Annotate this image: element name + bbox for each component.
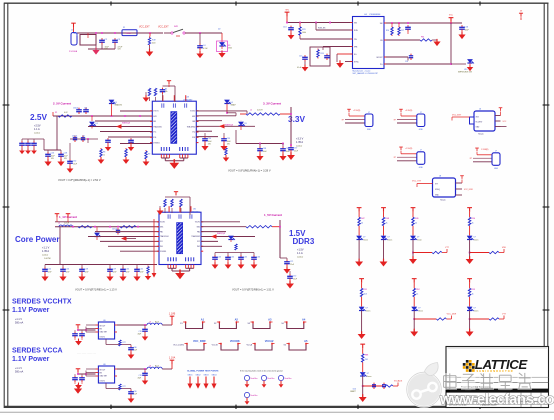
svg-text:C13: C13 [283,27,286,29]
svg-text:D?: D? [363,237,365,239]
svg-text:GND SET: GND SET [100,332,108,334]
svg-text:Green: Green [366,309,371,312]
svg-text:10uF: 10uF [134,394,138,396]
svg-text:C39: C39 [227,138,230,140]
svg-text:22uF: 22uF [66,271,70,273]
svg-text:VOSNS1: VOSNS1 [160,251,166,253]
svg-text:R52: R52 [416,289,419,291]
svg-text:GLOBAL POWER TEST POINTS: GLOBAL POWER TEST POINTS [187,370,219,373]
svg-text:D?: D? [388,237,390,239]
svg-text:22uF: 22uF [48,271,52,273]
svg-text:Green: Green [474,309,479,312]
svg-text:TestVia: TestVia [267,377,275,380]
svg-text:C72: C72 [293,276,296,278]
svg-text:A2: A2 [235,318,239,322]
svg-text:R1: R1 [55,112,57,114]
svg-text:VCCA2: VCCA2 [265,339,274,343]
svg-text:VCC_VTT: VCC_VTT [412,181,422,183]
svg-text:FB1: FB1 [421,37,424,39]
svg-text:Bead: Bead [155,365,159,367]
svg-text:1.35 A: 1.35 A [42,250,49,253]
svg-text:10uF: 10uF [134,350,138,352]
svg-text:GND: GND [494,168,499,170]
svg-text:VOUT2: VOUT2 [195,222,200,224]
svg-text:22uF: 22uF [126,271,130,273]
svg-text:1k: 1k [416,294,418,296]
svg-text:2.5V: 2.5V [30,112,48,122]
svg-text:47pF: 47pF [138,334,142,336]
svg-text:2k: 2k [472,223,474,225]
svg-text:SW2: SW2 [197,226,200,228]
svg-text:C56: C56 [66,269,69,271]
svg-text:VIN: VIN [285,10,289,12]
svg-text:3V3: 3V3 [476,117,479,119]
svg-text:C37: C37 [294,148,297,150]
svg-text:SW1: SW1 [153,116,156,118]
svg-text:R51: R51 [364,289,367,291]
svg-text:VCC_DDR: VCC_DDR [193,339,206,343]
svg-text:VOUT1: VOUT1 [160,222,165,224]
svg-text:+1.5V(R): +1.5V(R) [405,148,413,150]
svg-text:D10: D10 [353,389,356,391]
svg-text:500 mA: 500 mA [15,321,24,324]
svg-text:PG1: PG1 [160,246,163,248]
svg-text:R88: R88 [365,355,368,357]
svg-text:VC1: VC1 [153,132,156,134]
svg-text:VOUT2: VOUT2 [190,111,195,113]
svg-text:2k: 2k [415,223,417,225]
svg-text:C32: C32 [73,161,76,163]
svg-text:If the mounting holes needs to: If the mounting holes needs to be connec… [240,370,282,373]
svg-text:GND SET: GND SET [100,376,108,378]
svg-text:SYNC: SYNC [354,62,359,64]
svg-text:FB2: FB2 [192,121,195,123]
svg-text:C62: C62 [140,269,143,271]
svg-text:R8: R8 [103,152,105,154]
svg-text:1.35 A: 1.35 A [296,141,303,144]
svg-text:C71: C71 [290,261,293,263]
svg-text:C54: C54 [48,269,51,271]
svg-text:C14: C14 [405,61,408,63]
svg-text:C36: C36 [84,108,87,110]
svg-text:Bead: Bead [155,321,159,323]
svg-text:1.1VB(R): 1.1VB(R) [481,149,489,151]
svg-text:D?: D? [418,308,420,310]
svg-text:D3: D3 [115,102,117,104]
svg-text:DDR3: DDR3 [293,237,315,246]
svg-text:R53: R53 [472,289,475,291]
svg-text:VDDQ: VDDQ [435,189,441,191]
svg-text:U10: U10 [464,69,467,71]
svg-text:J?: J? [420,112,422,114]
svg-text:VC2: VC2 [192,132,195,134]
svg-text:0.1uF: 0.1uF [297,67,301,69]
svg-text:100k: 100k [302,32,306,34]
svg-text:VCC_DDR1: VCC_DDR1 [173,344,185,346]
svg-text:LT3080EMS8E: LT3080EMS8E [369,14,381,16]
svg-text:22uF: 22uF [294,150,298,152]
svg-text:VOUT1: VOUT1 [153,111,158,113]
svg-text:A4: A4 [302,318,306,322]
svg-text:C30(1): C30(1) [73,108,79,110]
svg-text:1k: 1k [103,154,105,156]
svg-text:FB1: FB1 [153,121,156,123]
svg-text:2_5V Current: 2_5V Current [53,102,71,106]
svg-text:A3: A3 [268,318,272,322]
svg-text:L2: L2 [250,110,252,112]
svg-text:J?: J? [420,150,422,152]
svg-text:C28: C28 [64,153,67,155]
svg-text:VCCAUX: VCCAUX [394,380,403,383]
svg-text:A5: A5 [304,339,308,343]
svg-text:500 mA: 500 mA [15,370,24,373]
svg-text:C41: C41 [82,136,85,138]
svg-text:C15: C15 [299,56,302,58]
svg-text:VCC_DDR: VCC_DDR [464,189,473,191]
svg-text:47pF: 47pF [138,378,142,380]
svg-text:Lattice: Lattice [34,132,41,135]
svg-text:Green: Green [363,238,368,241]
svg-text:VTT: VTT [435,184,438,186]
svg-text:SEMICONDUCTOR: SEMICONDUCTOR [477,370,514,373]
svg-text:D2: D2 [218,29,220,31]
svg-text:VCCA: VCCA [246,343,252,346]
svg-text:L6: L6 [149,365,151,367]
svg-text:F1: F1 [123,27,125,29]
svg-text:BOOST: BOOST [377,57,383,59]
svg-text:VOSNS1: VOSNS1 [153,142,159,144]
svg-text:0.47uH: 0.47uH [257,110,263,112]
svg-text:C26: C26 [51,153,54,155]
svg-text:+2.5V(R): +2.5V(R) [353,110,361,112]
svg-text:TestVia: TestVia [284,377,292,380]
svg-text:J?: J? [368,112,370,114]
svg-text:C78: C78 [139,331,142,333]
svg-text:VDD: VDD [502,247,507,249]
svg-text:VCCIO: VCCIO [212,344,219,346]
svg-text:C58: C58 [85,269,88,271]
svg-text:LTM4628EV: LTM4628EV [190,211,200,213]
svg-text:VCC_EXT: VCC_EXT [158,27,169,29]
svg-text:2k: 2k [386,223,388,225]
svg-text:IN OUT: IN OUT [100,370,106,372]
svg-text:C66: C66 [257,257,260,259]
svg-text:FB1: FB1 [160,231,163,233]
svg-text:10uF: 10uF [263,151,267,153]
svg-text:C47(1): C47(1) [112,229,118,231]
svg-text:TestVia: TestVia [250,377,258,380]
svg-text:J6: J6 [479,109,481,111]
svg-text:1.007W: 1.007W [44,258,51,260]
svg-text:FB2: FB2 [197,231,200,233]
svg-text:22uF: 22uF [140,271,144,273]
svg-text:C63: C63 [218,257,221,259]
svg-text:C60: C60 [126,269,129,271]
svg-text:0.47uH: 0.47uH [64,223,70,225]
svg-text:D5: D5 [245,123,247,125]
svg-text:SMA?(1)A: SMA?(1)A [225,123,234,126]
svg-text:SW2: SW2 [192,116,195,118]
svg-text:10uF: 10uF [73,163,77,165]
svg-text:R50: R50 [472,218,475,220]
svg-text:MMBT?: MMBT? [350,391,356,393]
svg-text:IN OUT: IN OUT [100,326,106,328]
svg-text:D?: D? [417,237,419,239]
svg-text:www.elecfans.com: www.elecfans.com [439,392,554,408]
svg-text:Lattice: Lattice [42,254,49,257]
svg-text:22uF: 22uF [290,264,294,266]
svg-text:SERDES VCCHTX: SERDES VCCHTX [12,299,72,306]
svg-text:750: 750 [365,359,368,361]
svg-text:3_3V Current: 3_3V Current [263,102,281,106]
svg-text:R9: R9 [148,154,150,156]
svg-text:GND: GND [419,129,424,131]
svg-text:1.1V Power: 1.1V Power [12,307,50,314]
svg-text:PJ-202A: PJ-202A [69,50,78,53]
svg-text:GND3: GND3 [204,375,209,377]
svg-text:J1: J1 [71,30,73,32]
svg-text:1k: 1k [472,294,474,296]
svg-text:SW: SW [380,23,383,25]
svg-text:C80: C80 [134,347,137,349]
svg-text:GND2: GND2 [196,375,201,377]
svg-text:R48: R48 [386,218,389,220]
svg-text:TstJack: TstJack [440,199,446,202]
svg-text:Green: Green [367,375,372,378]
svg-text:R49: R49 [415,218,418,220]
svg-text:L3: L3 [58,223,60,225]
svg-text:D4: D4 [231,102,233,104]
svg-text:1.1V Power: 1.1V Power [12,356,50,363]
svg-text:0.02: 0.02 [64,112,68,114]
svg-text:C65: C65 [244,257,247,259]
svg-text:Green: Green [417,238,422,241]
svg-text:RUN_SS: RUN_SS [318,28,326,30]
svg-text:R?: R? [342,119,344,121]
svg-text:Green: Green [388,238,393,241]
svg-text:Core Power: Core Power [15,235,59,244]
svg-text:VCC_DDR: VCC_DDR [447,314,457,316]
svg-text:D?: D? [366,308,368,310]
svg-text:. . . . . . . . . . . . . . .: . . . . . . . . . . . . . . . . [77,353,96,355]
svg-text:VCC_EXT: VCC_EXT [139,27,150,29]
svg-text:GND: GND [419,167,424,169]
svg-text:J?: J? [495,151,497,153]
svg-text:VC2: VC2 [197,241,200,243]
svg-text:VOUT = 0.8*((R61/R64)+1) =: VOUT = 0.8*((R61/R64)+1) = 3.28 V [228,169,271,173]
svg-text:VOUT = 0.9*((R72/R86)+1) =: VOUT = 0.9*((R72/R86)+1) = 1.51 V [232,288,274,292]
svg-text:C78: C78 [139,375,142,377]
svg-text:R?: R? [470,158,472,160]
svg-text:Green: Green [474,238,479,241]
svg-text:VCC_EXT: VCC_EXT [452,115,462,117]
svg-text:A1: A1 [201,318,205,322]
svg-text:R?: R? [394,157,396,159]
svg-text:LT3070: LT3070 [100,337,105,339]
svg-text:D1: D1 [96,123,98,125]
svg-text:5V6Z: 5V6Z [228,48,232,50]
svg-text:L6: L6 [149,321,151,323]
svg-text:SW1: SW1 [174,26,178,28]
svg-text:1.1VA: 1.1VA [169,357,176,360]
svg-text:1.1 A: 1.1 A [34,128,40,131]
svg-text:J8: J8 [439,176,441,178]
svg-text:Green: Green [418,309,423,312]
svg-text:22uF: 22uF [293,278,297,280]
svg-text:C64: C64 [231,257,234,259]
svg-text:R24: R24 [321,53,324,55]
svg-text:GND: GND [367,129,372,131]
svg-text:VOUT = 0.9*((R71/R85)+1) =: VOUT = 0.9*((R71/R85)+1) = 1.13 V [75,288,117,292]
svg-text:22uF: 22uF [85,271,89,273]
svg-text:GND1: GND1 [188,375,193,377]
svg-text:VC1: VC1 [160,241,163,243]
svg-text:C17: C17 [401,30,404,32]
svg-text:TstJack: TstJack [478,133,484,136]
svg-text:PG2: PG2 [197,246,200,248]
svg-text:SW1: SW1 [160,226,163,228]
svg-text:R20: R20 [386,30,389,32]
svg-text:D?: D? [367,373,369,375]
svg-text:R?: R? [394,119,396,121]
svg-text:C34: C34 [208,138,211,140]
svg-text:LT3070: LT3070 [100,381,105,383]
svg-text:+3.3V(R): +3.3V(R) [405,110,413,112]
svg-text:2k: 2k [361,223,363,225]
svg-text:SGT_SA0GNT-L 0.7500000 RP: SGT_SA0GNT-L 0.7500000 RP [353,72,379,75]
svg-text:C59: C59 [113,269,116,271]
svg-text:VCCEXT: VCCEXT [476,122,483,124]
svg-text:1.1VB: 1.1VB [169,313,176,316]
svg-text:604: 604 [364,294,367,296]
svg-text:22uF: 22uF [113,271,117,273]
svg-text:GND4: GND4 [212,375,217,377]
svg-text:C40(1): C40(1) [72,136,78,138]
svg-text:R23: R23 [302,29,305,31]
svg-text:SMA?(1)A: SMA?(1)A [122,122,131,125]
svg-text:10uF: 10uF [286,151,290,153]
svg-text:PG1: PG1 [153,137,156,139]
svg-text:1.1 A: 1.1 A [297,252,303,255]
svg-text:VCC: VCC [449,15,454,17]
svg-text:VOUT = 0.8*((R62/R63)+1) =: VOUT = 0.8*((R62/R63)+1) = 2.52 V [58,178,101,182]
svg-text:D?: D? [474,308,476,310]
svg-text:PG2: PG2 [192,137,195,139]
svg-text:TestVia: TestVia [250,394,258,397]
svg-text:SMA?(1)A: SMA?(1)A [217,232,226,235]
svg-text:1_5V Current: 1_5V Current [264,213,282,217]
svg-text:Lattice: Lattice [297,256,304,259]
svg-text:C80: C80 [134,391,137,393]
svg-text:C4: C4 [203,45,205,47]
svg-text:R47: R47 [361,218,364,220]
svg-text:R4: R4 [165,89,167,91]
svg-text:LTM4628EV: LTM4628EV [183,99,193,101]
svg-text:R77: R77 [123,342,126,344]
svg-text:SMPSOURCE 3.3V: SMPSOURCE 3.3V [458,72,473,74]
svg-text:C38: C38 [263,148,266,150]
svg-text:SERDES VCCA: SERDES VCCA [12,348,63,355]
svg-text:10k: 10k [165,91,168,93]
svg-text:R77: R77 [123,386,126,388]
svg-text:D?: D? [474,237,476,239]
svg-text:VCCIO8: VCCIO8 [230,339,240,343]
